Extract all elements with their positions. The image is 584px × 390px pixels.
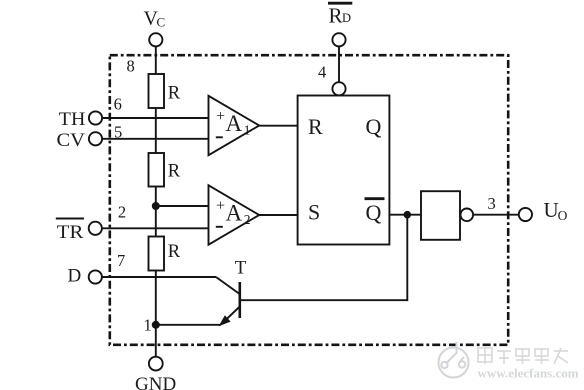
svg-text:2: 2	[118, 202, 126, 221]
wire R1 to R2 (divider rail)	[155, 108, 157, 153]
terminal VC	[144, 8, 166, 47]
svg-text:GND: GND	[135, 374, 176, 390]
svg-text:S: S	[308, 200, 320, 225]
wire CV to A1 - input	[102, 138, 208, 140]
terminal GND pin 1	[135, 357, 176, 390]
wire emitter to node 1	[156, 324, 221, 326]
transistor T	[216, 257, 247, 326]
watermark chinese text	[478, 348, 568, 364]
node 1 junction	[152, 321, 160, 329]
svg-text:D: D	[68, 266, 82, 287]
resistor R2	[149, 153, 165, 187]
terminal RD (reset) pin 4	[328, 3, 352, 46]
svg-text:TR: TR	[57, 222, 84, 243]
op-amp comparator A2	[209, 185, 260, 244]
svg-text:R: R	[308, 114, 323, 139]
wire node to A2 + input	[156, 205, 209, 207]
svg-text:Q: Q	[366, 114, 382, 139]
svg-text:R: R	[168, 242, 181, 262]
svg-text:A: A	[226, 111, 243, 136]
inverting bubble on flip-flop reset	[332, 82, 345, 95]
svg-text:R: R	[168, 84, 181, 104]
svg-text:www.elecfans.com: www.elecfans.com	[478, 366, 579, 381]
op-amp comparator A1	[209, 96, 260, 155]
svg-text:A: A	[226, 201, 243, 226]
watermark logo (elecfans)	[439, 342, 469, 378]
terminal TH pin 6	[59, 109, 102, 130]
svg-text:7: 7	[117, 251, 125, 270]
svg-text:6: 6	[114, 95, 122, 114]
svg-text:1: 1	[144, 316, 152, 335]
wire R2 to R3 (divider rail)	[155, 187, 157, 237]
terminal TR pin 2	[56, 219, 102, 244]
node at Qbar output	[404, 211, 412, 219]
resistor R1	[149, 74, 165, 108]
wire Qbar output to node	[389, 214, 421, 216]
svg-text:1: 1	[244, 123, 251, 138]
terminal CV pin 5	[57, 130, 103, 151]
wire D to transistor collector	[102, 276, 216, 278]
wire buffer to UO terminal	[473, 214, 519, 216]
wire R3 to node 1 and GND	[155, 271, 157, 357]
svg-text:CV: CV	[57, 130, 86, 151]
svg-text:3: 3	[488, 194, 496, 213]
wire node down to transistor base	[240, 215, 407, 301]
terminal UO pin 3	[519, 198, 568, 223]
IC package boundary (dash-dot box)	[110, 55, 508, 345]
svg-text:Q: Q	[366, 200, 382, 225]
svg-text:TH: TH	[59, 109, 86, 130]
wire TR to A2 - input	[102, 227, 209, 229]
svg-text:8: 8	[127, 57, 135, 76]
wire A1 output to R input	[259, 125, 297, 127]
node A2+ junction on divider	[152, 202, 160, 210]
svg-text:+: +	[216, 108, 225, 125]
wire RD terminal to reset bubble	[338, 46, 340, 82]
svg-text:2: 2	[244, 212, 251, 227]
wire TH to A1 + input	[102, 117, 208, 119]
wire VC terminal to resistor R1	[155, 46, 157, 74]
svg-text:T: T	[235, 257, 247, 278]
resistor R3	[149, 237, 165, 271]
flip-flop U1 (RS latch)	[298, 96, 390, 245]
svg-text:R: R	[168, 162, 181, 182]
svg-text:4: 4	[318, 63, 326, 82]
svg-text:+: +	[216, 198, 225, 215]
terminal D pin 7	[68, 266, 102, 287]
wire A2 output to S input	[259, 214, 297, 216]
output buffer gate	[421, 191, 473, 240]
